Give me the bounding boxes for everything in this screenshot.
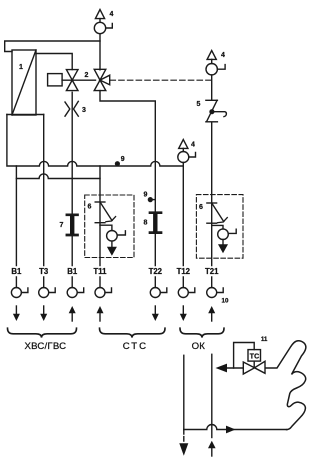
svg-text:Т11: Т11 [93, 267, 107, 276]
svg-text:В1: В1 [67, 267, 78, 276]
svg-text:1: 1 [19, 64, 23, 71]
brace CTC [100, 328, 166, 352]
svg-text:4: 4 [221, 52, 225, 59]
valve V2 [66, 70, 88, 91]
svg-text:3: 3 [82, 107, 86, 114]
arrow T22 down [152, 306, 159, 321]
brace XBC/GVS [8, 328, 77, 352]
wire HX top to valve 2 [36, 54, 72, 70]
svg-text:5: 5 [197, 101, 201, 108]
wire top header T1 [5, 41, 100, 52]
regulator 5 [197, 100, 227, 122]
pipe T12 [182, 163, 184, 288]
heat exchanger 1 [12, 50, 36, 115]
svg-text:В1: В1 [11, 267, 22, 276]
sensor circle T12 [178, 288, 195, 298]
flow meter 7 [60, 215, 78, 235]
arrow B1b up [69, 306, 76, 321]
svg-text:8: 8 [144, 220, 148, 227]
svg-text:2: 2 [85, 72, 89, 79]
sensor circle T11 [95, 288, 112, 298]
pipe T21 upper [211, 75, 213, 100]
pipe T3 [43, 115, 45, 288]
dashed outlet [183, 430, 185, 444]
arrow down outlet [179, 443, 188, 456]
dashed box right [196, 195, 243, 259]
dashed box left [85, 195, 134, 258]
arrow T12 down [180, 306, 187, 321]
node 9 on T22 [144, 192, 156, 202]
svg-text:6: 6 [199, 204, 203, 211]
pipe T21 lower [211, 123, 213, 288]
svg-text:11: 11 [261, 337, 268, 343]
svg-text:4: 4 [110, 11, 114, 18]
svg-text:Т3: Т3 [39, 267, 49, 276]
three-way valve 2 [94, 69, 110, 90]
sensor circle T3 [39, 288, 56, 298]
svg-text:9: 9 [121, 156, 125, 163]
instrument 4 over T12 [178, 140, 196, 163]
thermostatic valve arrow into return [216, 364, 244, 373]
header 1 with bridges [7, 115, 183, 167]
svg-text:7: 7 [60, 222, 64, 229]
brace OK [180, 328, 224, 352]
node 9 on header 1 [116, 156, 125, 166]
arrow up inlet [208, 441, 216, 456]
sensor circle T21 [207, 288, 229, 305]
actuator box of valve 2 [48, 74, 96, 86]
sensor circle B1a [11, 288, 28, 298]
sensor circle B1b [67, 288, 84, 298]
valve 6 with pump right [199, 203, 236, 253]
svg-text:Т22: Т22 [149, 267, 163, 276]
svg-text:10: 10 [222, 298, 229, 305]
pipe B1a cold water [15, 179, 17, 288]
svg-text:ТС: ТС [250, 354, 259, 361]
svg-text:ОК: ОК [192, 341, 206, 352]
radiator coil [266, 341, 306, 430]
valve 3 [65, 101, 86, 116]
impulse line dashed to T21 [110, 79, 212, 81]
flow arrow right [226, 426, 236, 434]
TC head box [248, 350, 261, 362]
svg-text:Т21: Т21 [205, 267, 219, 276]
pipe OK return [211, 354, 213, 437]
pipe OK supply down [183, 355, 185, 429]
svg-text:6: 6 [88, 204, 92, 211]
pipe B1 hot water (valve column) [71, 92, 73, 287]
arrow T11 up [97, 306, 104, 321]
instrument 4 over T11 [94, 10, 113, 34]
secondary circuit box under HX [7, 114, 44, 116]
capillary sensing line [234, 343, 255, 369]
flow meter 8 [144, 213, 162, 233]
arrow B1a down [13, 306, 20, 321]
arrow T21 up [208, 306, 215, 321]
svg-text:Т12: Т12 [177, 267, 191, 276]
sensor circle T22 [150, 288, 167, 298]
header 2 [16, 166, 100, 179]
svg-text:СТС: СТС [123, 341, 148, 352]
pipe OK bottom with bridge [184, 425, 287, 430]
pipe T11 lower [99, 166, 101, 288]
thermostatic valve 11 [243, 337, 268, 374]
instrument 4 over T21 [206, 51, 225, 75]
svg-text:ХВС/ГВС: ХВС/ГВС [25, 341, 67, 352]
svg-text:4: 4 [191, 142, 195, 149]
pipe from 3-way valve down to T22 [100, 91, 155, 288]
pipe T11 upper [99, 34, 101, 70]
svg-text:9: 9 [144, 192, 148, 199]
valve 6 with pump left [88, 202, 126, 256]
arrow T3 down [40, 306, 47, 321]
